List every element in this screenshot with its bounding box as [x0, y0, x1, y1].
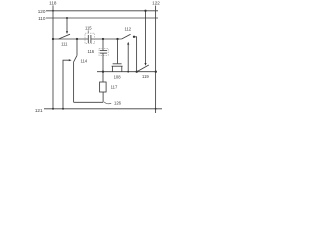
switch 114 top lead — [76, 39, 78, 55]
node dot line118 x rail120 — [52, 10, 54, 12]
control arrow for switch 111 from rail 110 — [66, 18, 68, 32]
switch 112 output wire to vertical — [134, 37, 137, 72]
capacitor 116 bottom lead — [102, 53, 104, 71]
capacitor 116 top plate — [100, 50, 107, 52]
node A junction dot (53,39) — [52, 38, 54, 40]
node wire 126 bottom (y=102.3) — [74, 101, 104, 103]
junction dot line122 x rail121 — [155, 108, 157, 110]
svg-text:120: 120 — [38, 9, 46, 14]
switch 111 blade — [59, 34, 70, 39]
line 122 (right vertical control line) — [155, 6, 157, 113]
svg-text:112: 112 — [124, 27, 131, 32]
svg-text:122: 122 — [152, 1, 160, 6]
switch 112 blade — [122, 34, 131, 39]
rail 110 (second horizontal line) — [46, 17, 158, 19]
wire W1 (horizontal wire y=39, left segment) — [53, 38, 88, 40]
switch 114 blade — [73, 55, 77, 62]
capacitor 115 right plate — [90, 35, 92, 43]
junction dot (103,71.7) — [102, 71, 104, 73]
capacitor 116 bottom plate — [100, 52, 107, 54]
svg-text:117: 117 — [111, 84, 118, 89]
svg-text:108: 108 — [114, 74, 122, 79]
junction dot control 111 on rail 110 — [66, 17, 68, 19]
svg-text:110: 110 — [38, 16, 46, 21]
node dot line118 x rail121 — [52, 108, 54, 110]
junction dot control 114 on rail 121 — [62, 108, 64, 110]
junction dot (136.6,71.7) switch 119 pivot — [136, 71, 138, 73]
svg-text:114: 114 — [80, 59, 87, 64]
capacitor 115 dashed box — [85, 33, 95, 43]
svg-text:126: 126 — [114, 100, 122, 105]
switch 119 blade — [137, 65, 149, 72]
svg-text:118: 118 — [49, 1, 57, 6]
resistor 117 box — [100, 82, 107, 92]
svg-text:115: 115 — [85, 25, 92, 30]
junction dot gate (117.5,39) — [116, 38, 118, 40]
svg-text:116: 116 — [87, 49, 94, 54]
control wire for switch 114 from rail 121 — [63, 60, 69, 109]
svg-text:111: 111 — [61, 42, 68, 47]
label 126 with curved leader — [104, 102, 111, 104]
resistor 117 bottom lead — [102, 92, 104, 102]
capacitor 116 top lead — [102, 39, 104, 50]
junction dot control 112 on node wire — [127, 71, 129, 73]
control line for switch 119 from rail 120 — [145, 11, 147, 63]
transistor 124 channel bar — [112, 65, 123, 67]
transistor 124 right leg — [121, 66, 123, 72]
transistor 124 gate lead — [117, 39, 119, 63]
junction dot control 119 on rail 120 — [144, 10, 146, 12]
capacitor 116 dashed box — [99, 48, 108, 55]
svg-text:119: 119 — [142, 74, 149, 79]
control arrow for switch 112 from node wire — [127, 44, 129, 71]
switch 114 bottom lead — [73, 63, 75, 103]
transistor 124 left leg — [111, 66, 113, 72]
rail 120 (top horizontal line) — [46, 10, 158, 12]
node wire N (horizontal wire y=71.7) — [97, 71, 156, 73]
leader 115 — [87, 30, 89, 33]
line 118 (left vertical data line) — [52, 5, 54, 108]
node B junction dot (103,39) — [102, 38, 104, 40]
rail 121 (bottom horizontal line) — [44, 108, 162, 110]
switch 112 output contact dot — [133, 36, 135, 38]
svg-text:121: 121 — [35, 108, 43, 113]
wire W1 (horizontal wire y=39, right segment) — [91, 38, 122, 40]
capacitor 115 left plate — [87, 35, 89, 43]
transistor 124 gate bar — [113, 63, 122, 65]
switch 111 right contact dot — [76, 38, 78, 40]
junction dot (156.2,71.7) on line 122 — [155, 71, 157, 73]
resistor 117 top lead — [102, 72, 104, 82]
